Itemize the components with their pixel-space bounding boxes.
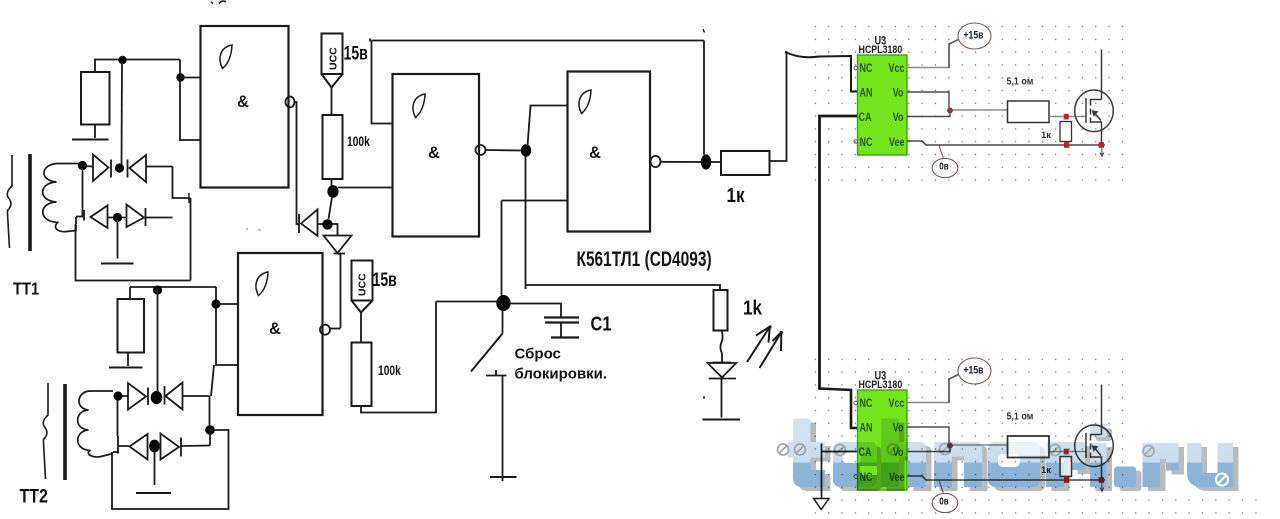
letter i [1090,424,1107,437]
transformer TT1 secondary winding [43,163,81,231]
diode D1 (points right) [93,155,111,182]
NAND gate G2 [393,74,480,237]
wire AN1 feed [785,52,858,92]
wire TT2 node down to bridge right [211,365,214,396]
ground LED [703,419,741,421]
diode D4 (points right) [122,205,173,228]
wire bridge right side down [173,167,191,199]
wire dot to diode D1 [83,165,94,168]
wire G2 out to dot [486,149,522,152]
diode D10 (points right) [161,434,211,460]
wire down to loop [190,198,192,281]
wire 1k to LED [720,331,722,363]
wire Vo node to gate resistor [953,109,1008,111]
diode D9 (points left) [118,434,148,460]
node dot G4 input1 [211,299,220,308]
letter h [881,419,899,488]
diode D8 (points left) [165,383,210,410]
resistor 1к gate-source [1060,122,1072,142]
wire 100k1 to dot [331,179,333,186]
diode D3 bar [83,210,85,221]
red square 1к bottom [1064,142,1069,148]
resistor 5,1 ом [1008,101,1050,123]
wire rail right down [180,60,201,141]
ground under R-tt1 [72,139,109,141]
wire right end down to G4 inputs [216,287,238,365]
svg-text:NC: NC [860,63,873,75]
wire CA2 to ground [822,444,858,499]
wire Vee to 0в [939,146,944,159]
svg-text:Vcc: Vcc [889,63,905,75]
wire reset node down to switch [502,310,504,334]
winding tail to bar [113,451,118,453]
grid dots bottom strip right [1135,490,1257,516]
ground switch [490,476,517,478]
wire resistor bottom [94,125,96,139]
resistor 100k (2) [352,343,372,407]
red square gate node [1064,114,1069,120]
wire UCC1 to 100k [331,88,333,116]
transformer TT2 primary winding [43,383,48,479]
latch feedback rail [370,39,704,124]
wire dot2 to diode D6 [333,224,338,236]
wire R-tt2 bottom [127,353,129,367]
node dot top bridge middle [115,163,124,172]
ground under R-tt2 [109,367,143,369]
optocoupler bank 2 [854,358,1113,513]
svg-text:5,1 ом: 5,1 ом [1007,76,1034,88]
transformer TT2 core [63,384,67,480]
red square source [1099,142,1104,148]
wire D6 down to G4 output [339,254,341,328]
wire dot down TT2 left [117,400,119,436]
wire dot up to G3 input1 [528,106,568,147]
stray marks top edge [211,1,226,3]
wire TT2 mid to ground [154,450,156,485]
U3 green box HCPL3180 [858,55,908,155]
svg-text:&: & [589,144,601,162]
svg-text:HCPL3180: HCPL3180 [859,44,903,56]
wire G3 out [661,161,702,163]
G1 schmitt leaf [220,45,232,69]
wire to gate1 input1 [181,77,201,79]
letter n [934,442,952,487]
svg-text:ТТ2: ТТ2 [20,485,48,507]
node dot TT2 right [205,425,215,435]
svg-text:Vo: Vo [893,112,904,124]
ground arrow CA2 [814,499,830,510]
top rail TT1 [94,59,180,61]
letter t [793,419,825,488]
Vee return rail [907,141,1105,145]
pin labels left [859,63,873,149]
wire Vo pin2 [907,113,950,117]
LED VD1 [708,363,737,379]
diode D5 cathode bar [298,214,300,233]
wire CA1 to AN2 chain [820,116,858,389]
wire between dots [329,197,333,219]
svg-text:Vee: Vee [889,137,905,149]
G2 schmitt leaf [413,94,425,118]
diode D9 bar [117,436,119,454]
node dot G3 out [701,154,711,169]
wire dot1 to gate2 input2 [338,187,393,189]
svg-text:К561ТЛ1 (CD4093): К561ТЛ1 (CD4093) [577,246,712,270]
svg-text:Vo: Vo [893,88,904,100]
TT2 section top wire [130,287,216,299]
svg-text:100k: 100k [378,363,401,379]
G2 output bubble [476,145,486,155]
junction tick [188,193,190,203]
pin labels right [889,63,905,149]
wire G4 out [330,328,341,330]
node dot gate1 input1 [176,73,184,81]
G4 output bubble [320,325,330,335]
wire TT2 bridge right [209,396,211,426]
wire dot down [525,156,527,289]
svg-text:блокировки.: блокировки. [515,366,608,383]
capacitor C1 [544,318,579,323]
NC pin circles [854,66,858,70]
resistor 100k (1) [323,115,343,179]
switch arm [471,334,503,372]
wire winding bottom to loop [76,217,191,281]
svg-text:UCC: UCC [328,47,340,70]
letter u [1187,443,1233,487]
white wash over resistor bodies (watermark shows faintly through) [1008,436,1072,477]
+15в supply oval [958,23,991,49]
diode D6 (points down) [324,236,352,254]
UCC symbol 1 [322,34,343,75]
wire resistor top to rail [94,60,96,73]
letter r2 [1143,443,1161,487]
wire reset node left [436,301,497,303]
svg-text:100k: 100k [347,134,370,150]
svg-text:1к: 1к [727,184,746,207]
wire dot down to TT2 bridge [157,290,159,392]
svg-text:1k: 1k [743,296,763,319]
resistor R-tt1 (top left) [81,72,110,125]
grid dots bottom-right [806,355,1135,516]
letter e [833,442,877,487]
watermark tehnari.ru [778,419,1239,492]
transformer TT1 core [28,154,32,251]
diode D3 (points left) [91,206,114,229]
NAND gate G1 [201,26,289,188]
node dot Vo (red) [947,108,953,114]
node dot TT1 winding top [78,161,87,170]
UCC symbol 2 [352,261,373,301]
wire Vo pin1 [907,92,949,108]
node dot TT2 bottom middle [149,440,160,453]
node dot TT2 winding top [113,391,122,400]
diode D2 (points left) [128,155,173,182]
tick above rail right corner [703,29,705,33]
0в supply oval [932,158,958,177]
NAND gate G4 [238,253,323,415]
G3 output bubble [651,156,661,167]
transformer TT1 primary winding [7,155,12,248]
svg-text:&: & [237,93,249,111]
wire UCC2 to 100k2 [360,313,362,343]
period [1114,467,1136,488]
optocoupler bank 1 [854,23,1113,178]
resistor 1k vertical [714,290,728,331]
wire bottom bridge mid to ground [117,220,119,259]
svg-text:C1: C1 [591,312,612,335]
wire TT2 right down [112,430,229,509]
svg-text:15в: 15в [373,269,397,291]
wire G1 output down [295,102,300,224]
wire switch to ground [502,376,504,482]
ground TT1 bridge [101,263,134,265]
wire 100k2 bottom to reset line [361,302,436,413]
node dot under 100k [327,185,338,198]
svg-text:&: & [269,320,281,338]
diode D7 (points right) [122,383,148,410]
NAND gate G3 [568,72,651,232]
letter a [988,442,1040,487]
svg-text:0в: 0в [939,160,949,171]
resistor 1к horizontal [721,151,770,175]
wire reset node to C1 [510,304,561,318]
grid dots top-right [806,22,1135,192]
letter r [1046,442,1064,487]
svg-text:Сброс: Сброс [515,346,561,363]
svg-text:+15в: +15в [964,30,984,42]
wire 1к to AN riser [770,52,787,161]
wire G3 input2 [502,201,568,297]
wire dot down left side [76,168,84,217]
wire Vcc to +15v [907,67,949,69]
diode D5 (points left) [301,210,323,237]
wire to G4 input1 [216,303,238,305]
MOSFET Q1 [1075,50,1114,145]
ground TT2 bridge [136,492,171,494]
wire LED to ground [721,379,723,418]
svg-text:AN: AN [860,88,873,100]
G4 schmitt leaf [256,272,268,296]
svg-text:ТТ1: ТТ1 [13,279,39,299]
node dot TT2 top middle [151,391,163,404]
LED light arrows [747,327,770,363]
svg-text:CA: CA [859,112,872,124]
node dot bottom bridge middle [113,213,122,222]
node dot reset (big) [496,295,510,311]
wire rail dot down to bridge [121,60,124,165]
node dot rail [118,56,126,64]
G3 schmitt leaf [579,90,591,114]
svg-text:15в: 15в [344,42,368,64]
wire rail down to dot [703,41,705,155]
switch contact [486,370,507,376]
svg-text:&: & [428,144,440,162]
svg-text:UCC: UCC [357,273,369,296]
node dot TT2 wire [153,285,162,294]
resistor R-tt2 [118,299,145,353]
wire 5,1 to gate node [1049,116,1086,118]
node dot D5-D6 [322,219,332,229]
svg-text:NC: NC [860,137,873,149]
transformer TT2 secondary winding [78,391,113,457]
svg-text:1к: 1к [1041,130,1051,141]
wire latch out right [526,285,721,290]
tick below source [1100,148,1104,157]
node dot after G2 [521,144,531,156]
G1 output bubble [286,97,295,108]
